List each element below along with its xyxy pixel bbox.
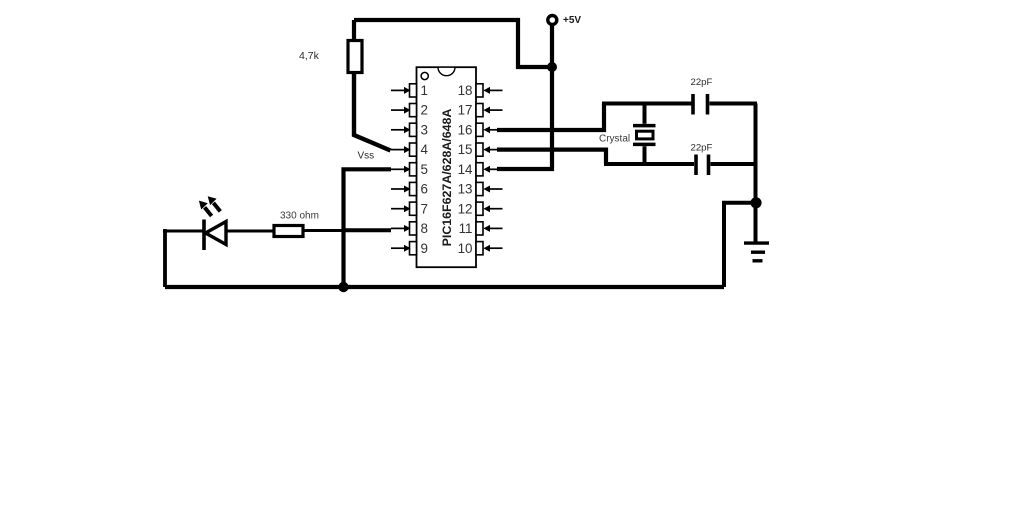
svg-text:11: 11 <box>459 221 473 236</box>
pin 14 arrow <box>483 166 502 173</box>
pin 6 arrow <box>391 186 411 193</box>
svg-text:5: 5 <box>421 162 428 177</box>
pin 2 arrow <box>391 107 411 114</box>
pin 9 box <box>410 242 417 255</box>
wire pin 15 to crystal bottom <box>497 150 606 164</box>
LED D1 cathode bar <box>202 220 206 251</box>
svg-text:6: 6 <box>421 182 428 197</box>
pin 15 box <box>476 143 483 156</box>
ground symbol <box>744 243 769 261</box>
wire vertical to pin 8 <box>344 228 391 232</box>
pin 4 arrow <box>391 146 411 153</box>
svg-text:22pF: 22pF <box>691 143 713 154</box>
svg-text:7: 7 <box>421 201 428 216</box>
pin 8 arrow <box>391 225 411 232</box>
wire +5V vertical down to pin 14 row <box>497 24 552 169</box>
svg-text:14: 14 <box>458 162 473 177</box>
svg-text:17: 17 <box>458 103 473 118</box>
wire LED left loop vertical <box>163 229 167 287</box>
svg-text:3: 3 <box>421 122 428 137</box>
svg-text:8: 8 <box>421 221 428 236</box>
svg-text:4,7k: 4,7k <box>299 50 320 62</box>
crystal X1 <box>633 102 656 167</box>
wire C2 to right vertical <box>711 162 758 166</box>
pin 6 box <box>410 182 417 195</box>
pin 13 box <box>476 182 483 195</box>
capacitor C1 plates <box>693 94 708 115</box>
svg-text:Crystal: Crystal <box>599 134 630 145</box>
LED D1 triangle <box>206 222 227 245</box>
pin 16 box <box>476 123 483 136</box>
resistor R2 <box>274 226 303 237</box>
svg-text:Vss: Vss <box>358 151 375 162</box>
wire ground node to bottom rail corner <box>724 203 756 287</box>
wire crystal top rail <box>602 102 692 106</box>
pin 5 box <box>410 163 417 176</box>
pin 10 arrow <box>483 245 502 252</box>
pin 12 arrow <box>483 205 502 212</box>
svg-text:9: 9 <box>421 241 428 256</box>
resistor R1 <box>348 41 362 73</box>
pin 12 box <box>476 202 483 215</box>
pin 1 box <box>410 84 417 97</box>
wire pin 5 to bottom rail <box>344 169 392 287</box>
pin 9 arrow <box>391 245 411 252</box>
wire rail to LED cathode <box>163 230 204 233</box>
pin 11 arrow <box>483 225 502 232</box>
LED D1 emission arrow 2 <box>208 196 221 211</box>
pin 4 box <box>410 143 417 156</box>
IC U1 body <box>417 67 477 267</box>
pin 17 arrow <box>483 107 502 114</box>
pin 3 arrow <box>391 126 411 133</box>
svg-text:PIC16F627A/628A/648A: PIC16F627A/628A/648A <box>440 109 454 247</box>
svg-text:330 ohm: 330 ohm <box>280 211 319 222</box>
pin 7 box <box>410 202 417 215</box>
wire C1 to right vertical <box>710 102 758 106</box>
LED D1 emission arrow 1 <box>199 201 212 216</box>
svg-text:16: 16 <box>458 122 473 137</box>
wire R2 to vertical <box>304 229 344 232</box>
wire crystal bottom rail <box>604 162 694 166</box>
capacitor C2 plates <box>696 155 709 176</box>
svg-text:4: 4 <box>421 142 429 157</box>
pin 16 arrow <box>483 126 502 133</box>
svg-text:2: 2 <box>421 103 428 118</box>
pin 10 box <box>476 242 483 255</box>
pin 7 arrow <box>391 205 411 212</box>
power terminal +5V <box>548 16 557 25</box>
svg-text:12: 12 <box>458 201 473 216</box>
wire bottom ground rail <box>165 285 724 289</box>
pin 15 arrow <box>483 146 502 153</box>
svg-text:15: 15 <box>458 142 473 157</box>
pin 11 box <box>476 222 483 235</box>
svg-text:1: 1 <box>421 83 428 98</box>
pin 17 box <box>476 104 483 117</box>
svg-text:13: 13 <box>458 182 473 197</box>
pin 18 box <box>476 84 483 97</box>
wire pin 16 to crystal top <box>497 104 604 131</box>
pin 5 arrow <box>391 166 411 173</box>
wire R1 bottom lead diagonal to pin 4 <box>354 72 391 151</box>
pin 1 arrow <box>391 87 411 94</box>
pin 13 arrow <box>483 186 502 193</box>
pin 2 box <box>410 104 417 117</box>
wire right vertical to ground <box>754 104 758 242</box>
pin 8 box <box>410 222 417 235</box>
pin 14 box <box>476 163 483 176</box>
junction +5V node <box>547 62 557 72</box>
svg-text:10: 10 <box>458 241 473 256</box>
pin 3 box <box>410 123 417 136</box>
pin 18 arrow <box>483 87 502 94</box>
junction ground node <box>750 197 761 208</box>
wire R1 top lead <box>352 20 356 40</box>
svg-text:+5V: +5V <box>563 15 581 26</box>
junction bottom rail node <box>338 282 348 292</box>
wire LED to R2 <box>226 230 274 233</box>
svg-text:22pF: 22pF <box>691 77 713 88</box>
svg-text:18: 18 <box>458 83 473 98</box>
wire top rail from R1 to +5V column <box>354 20 552 67</box>
